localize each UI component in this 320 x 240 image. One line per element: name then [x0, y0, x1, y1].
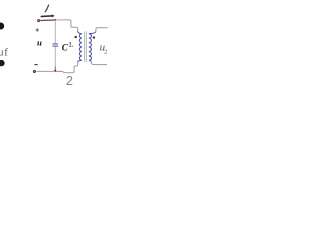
bullet dot (page text fragment, upper left): [0, 23, 4, 30]
wire (top jog down to primary coil): [70, 20, 78, 32]
wire (bottom, from terminal to jog): [36, 70, 54, 72]
label - (port polarity): [35, 64, 38, 65]
wire (top, junction to jog, lighter): [55, 19, 69, 21]
node (junction of capacitor branch with top wire): [55, 19, 57, 21]
polarity dot (secondary): [93, 36, 96, 39]
label i (current): [45, 5, 49, 13]
wire (capacitor branch, lower): [54, 47, 56, 71]
bullet dot (page text fragment, lower left): [0, 60, 5, 66]
transformer primary coil (left winding): [78, 31, 82, 62]
transformer secondary coil (right winding): [89, 31, 96, 62]
label + (port polarity): [35, 28, 39, 32]
svg-text:2: 2: [104, 48, 107, 55]
svg-text:C: C: [62, 42, 69, 52]
wire (secondary bottom stub): [91, 62, 107, 65]
wire (top, from terminal to jog): [40, 19, 55, 22]
wire (bottom, junction to jog corner): [56, 71, 65, 72]
svg-text:uf: uf: [0, 48, 9, 59]
wire (bottom jog up to primary coil): [65, 61, 78, 72]
terminal (bottom left port): [33, 71, 35, 73]
wire (secondary top stub): [96, 28, 108, 32]
node (junction of capacitor branch with bottom wire): [54, 70, 56, 72]
svg-text:L: L: [69, 41, 73, 49]
wire (capacitor branch, upper): [54, 20, 56, 43]
current arrow: [41, 14, 55, 17]
terminal (top left port): [38, 20, 40, 22]
svg-text:u: u: [37, 37, 42, 47]
svg-text:2: 2: [66, 73, 73, 88]
wire (capacitor branch, reddish lower end): [54, 67, 56, 71]
polarity dot (primary): [74, 36, 77, 39]
capacitor C (plates): [53, 43, 59, 46]
transformer core: [85, 31, 87, 61]
